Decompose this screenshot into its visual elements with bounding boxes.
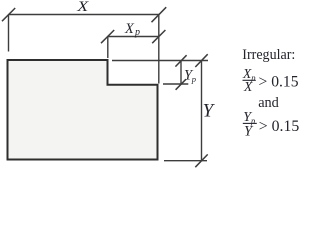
tick bottom of Yp	[176, 79, 186, 90]
svg-text:X: X	[243, 79, 253, 94]
tick top of Y	[195, 54, 207, 67]
dimension line Xp	[108, 36, 160, 38]
svg-text:> 0.15: > 0.15	[259, 73, 299, 90]
building plan outline (re-entrant corner shape)	[8, 60, 158, 160]
fraction Yp/Y bar	[243, 122, 257, 124]
tick right of X	[152, 7, 167, 22]
extension line right (from X dim down to notch corner)	[158, 15, 160, 84]
svg-text:Yp: Yp	[184, 68, 196, 84]
extension line right of notch bottom (for Yp)	[163, 83, 188, 85]
extension line left (below X dim)	[8, 15, 10, 52]
tick right of Xp	[152, 30, 165, 43]
svg-text:Y: Y	[244, 124, 254, 140]
svg-text:Irregular:: Irregular:	[242, 47, 295, 63]
dimension line X	[9, 14, 160, 16]
svg-text:Y: Y	[203, 101, 216, 122]
tick left of X	[2, 8, 15, 21]
bottom extension line (for Y)	[164, 160, 207, 162]
svg-text:and: and	[258, 95, 279, 111]
svg-text:> 0.15: > 0.15	[259, 118, 300, 135]
tick bottom of Y	[195, 154, 207, 167]
top extension line (roof level out to Y dims)	[112, 60, 208, 62]
fraction Xp/X bar	[243, 79, 256, 81]
tick top of Yp	[175, 55, 186, 66]
dimension line Yp	[180, 61, 182, 85]
svg-text:Xp: Xp	[124, 21, 141, 38]
tick left of Xp	[101, 30, 114, 43]
extension line below Xp left tick	[107, 37, 109, 59]
dimension line Y	[201, 61, 203, 161]
svg-text:X: X	[76, 0, 90, 15]
